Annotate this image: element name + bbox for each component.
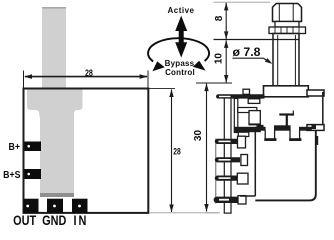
- dimension 8: top arrowhead: [224, 3, 228, 11]
- front-view shaft (gray silhouette): [42, 7, 66, 90]
- svg-text:10: 10: [213, 53, 224, 65]
- front-view square outline: [24, 89, 149, 213]
- side view: pin 3: [215, 176, 240, 181]
- pad IN: [72, 199, 88, 213]
- side view: knurled collar: [269, 27, 306, 34]
- pad OUT: [24, 199, 39, 213]
- E-bracket arm 2: [238, 108, 257, 113]
- side view: body bottom with rounded corner: [255, 130, 315, 200]
- side view: plunger T: [279, 113, 294, 115]
- pad B+S: [25, 169, 42, 179]
- side view: right edge bump: [316, 136, 318, 145]
- side view: bracket bottom edge: [240, 195, 255, 197]
- side view: pin 1: [215, 139, 240, 144]
- dimension 8: top extension line: [214, 1, 271, 3]
- diameter leader underline: [233, 57, 264, 59]
- rotation arc right arrowhead: [193, 61, 206, 71]
- side view: pin 2: [215, 157, 240, 162]
- svg-text:Active: Active: [167, 6, 194, 15]
- svg-text:Bypass: Bypass: [165, 59, 195, 68]
- dimension 28 vertical: top extension line: [149, 88, 175, 90]
- dimension 28 vertical: bottom arrowhead: [169, 205, 173, 213]
- push-pull double arrow: [175, 16, 187, 31]
- pad GND: [47, 199, 63, 213]
- dimension 28 vertical: top arrowhead: [169, 89, 173, 97]
- dimension 28 horizontal: left arrowhead: [24, 74, 32, 79]
- dimension 8/10 boundary extension line: [214, 39, 273, 41]
- dimension 28 horizontal: extension line right: [147, 71, 149, 89]
- side view: mounting plate: [264, 86, 309, 97]
- diameter leader arrow: [264, 58, 271, 63]
- svg-text:OUT: OUT: [13, 213, 36, 229]
- side view: threaded bushing: [273, 34, 299, 87]
- side view: E-bracket spine: [234, 99, 238, 133]
- dimension 30: top extension line: [196, 82, 232, 84]
- dimension 30: top arrowhead: [204, 83, 208, 91]
- svg-text:ø 7.8: ø 7.8: [233, 45, 261, 59]
- svg-text:8: 8: [214, 15, 225, 21]
- knob cap facet lines: [278, 4, 280, 22]
- front-view flange (gray silhouette with notched corners): [27, 90, 83, 117]
- side view: right clip wall: [322, 92, 324, 128]
- dimension 30: bottom arrowhead: [204, 204, 208, 212]
- dimension 28 vertical: line: [171, 90, 173, 213]
- svg-text:Control: Control: [165, 68, 195, 77]
- side view: right clip bottom bar: [307, 125, 324, 131]
- side view: right clip top bar: [307, 90, 324, 96]
- E-bracket arm 3: [234, 127, 260, 132]
- side view: knob cap: [273, 4, 302, 22]
- side view: panel line: [215, 139, 217, 204]
- bottom-left extension line of 30 dim: [206, 212, 219, 214]
- svg-text:B+: B+: [9, 140, 21, 152]
- top lug tab: [243, 89, 250, 94]
- side view: body top edge segments: [255, 127, 265, 131]
- svg-text:GND: GND: [42, 213, 66, 229]
- dimension 10: bottom arrowhead: [224, 75, 228, 83]
- dimension 28 horizontal: line: [25, 76, 147, 78]
- pad B+: [25, 142, 42, 152]
- dimension 30: line: [206, 84, 208, 212]
- dimension 8: bottom arrowhead: [224, 31, 228, 39]
- svg-text:30: 30: [193, 130, 204, 142]
- dimension 28 horizontal: extension line left: [23, 71, 25, 89]
- dimension 28 horizontal: right arrowhead: [140, 74, 148, 79]
- rotation arc left arrowhead: [152, 61, 164, 71]
- dimension 8: line: [225, 3, 227, 39]
- svg-text:28: 28: [85, 67, 93, 78]
- svg-text:B+S: B+S: [3, 168, 20, 180]
- side view: knob neck: [275, 22, 299, 28]
- notch U outlines: [264, 130, 266, 140]
- side view: bracket rails: [223, 99, 225, 214]
- left wall tall box: [249, 111, 260, 125]
- rotation ellipse arc: [148, 38, 209, 61]
- side view: top lug: [216, 94, 264, 98]
- front-view body (gray silhouette): [40, 111, 74, 197]
- svg-text:28: 28: [173, 146, 181, 156]
- side view: pin 4: [214, 197, 245, 203]
- left wall small box: [248, 99, 260, 104]
- side view: body left edge: [254, 130, 256, 196]
- svg-text:IN: IN: [73, 213, 88, 229]
- dimension 28 vertical: bottom extension line: [149, 212, 220, 214]
- dimension 10: top arrowhead: [224, 40, 228, 48]
- dimension 10: line: [225, 40, 227, 82]
